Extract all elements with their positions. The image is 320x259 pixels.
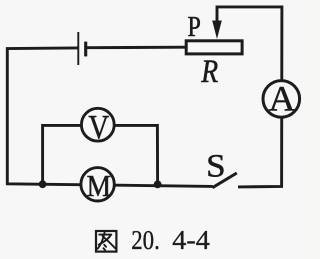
svg-text:M: M [87, 170, 111, 204]
svg-text:V: V [88, 108, 109, 146]
svg-text:R: R [200, 53, 218, 90]
svg-text:4-4: 4-4 [172, 225, 210, 255]
svg-text:S: S [206, 148, 225, 184]
svg-text:P: P [188, 11, 201, 42]
svg-text:20.: 20. [131, 225, 160, 255]
svg-text:A: A [268, 78, 295, 118]
